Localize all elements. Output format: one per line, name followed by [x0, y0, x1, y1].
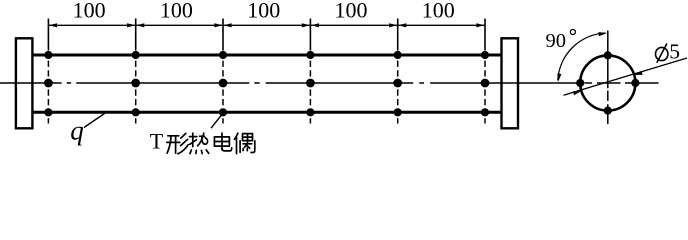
thermocouple dot top, station 1 — [44, 51, 52, 59]
svg-text:100: 100 — [73, 0, 106, 22]
thermocouple dot centre, station 1 — [44, 79, 53, 88]
svg-text:q: q — [70, 116, 84, 146]
phi5 arrowhead upper-right pointing at circle — [634, 71, 643, 75]
arrowhead left end of segment 4 — [311, 23, 319, 27]
station 5 dimension extension line — [397, 19, 399, 51]
thermocouple dot top, station 4 — [306, 51, 314, 59]
leader line from q label to tube wall — [84, 114, 105, 128]
station 1 dimension extension line — [47, 19, 49, 51]
station 2 dimension extension line — [135, 19, 137, 51]
tube top wall — [33, 54, 501, 57]
thermocouple dot centre, station 3 — [219, 79, 228, 88]
label char &#20598; — [234, 133, 254, 154]
thermocouple dot bottom, station 6 — [481, 108, 489, 116]
svg-text:90: 90 — [546, 30, 567, 52]
station 1 vertical dashed line — [47, 51, 49, 124]
tube cross-section circle — [580, 55, 635, 110]
arrowhead right end of segment 5 — [476, 23, 484, 27]
thermocouple dot centre, station 5 — [393, 79, 402, 88]
90 degree dimension arc — [558, 33, 606, 81]
station 3 dimension extension line — [222, 19, 224, 51]
arc arrowhead at vertical centerline — [598, 32, 606, 36]
svg-text:100: 100 — [422, 0, 455, 22]
arrowhead right end of segment 3 — [302, 23, 310, 27]
dimension line segment 5 (100) — [398, 24, 485, 26]
leader line from thermocouple label to bottom dot — [211, 114, 223, 128]
thermocouple dot bottom, station 3 — [219, 108, 227, 116]
thermocouple dot bottom, station 5 — [394, 108, 402, 116]
station 5 vertical dashed line — [397, 51, 399, 124]
left flange — [16, 38, 33, 128]
label char &#28909; — [190, 133, 209, 154]
label char &#24418; — [167, 133, 189, 153]
thermocouple dot centre, station 6 — [481, 79, 490, 88]
thermocouple dot centre, station 2 — [131, 79, 140, 88]
label char &#30005; — [214, 133, 231, 151]
arrowhead left end of segment 5 — [398, 23, 406, 27]
arrowhead left end of segment 2 — [136, 23, 144, 27]
dimension line segment 4 (100) — [310, 24, 397, 26]
tube bottom wall — [33, 111, 501, 114]
dimension line segment 2 (100) — [136, 24, 223, 26]
section thermocouple dot right — [631, 79, 639, 87]
label phi (diameter symbol) — [656, 47, 668, 60]
thermocouple dot top, station 3 — [219, 51, 227, 59]
right flange — [502, 38, 519, 128]
station 3 vertical dashed line — [222, 51, 224, 124]
thermocouple dot top, station 2 — [132, 51, 140, 59]
dimension line segment 1 (100) — [48, 24, 135, 26]
station 2 vertical dashed line — [135, 51, 137, 124]
section circle vertical centerline — [607, 31, 609, 125]
dimension line segment 3 (100) — [223, 24, 310, 26]
phi5 arrowhead lower-left pointing at circle — [573, 91, 582, 95]
svg-text:100: 100 — [335, 0, 368, 22]
arrowhead left end of segment 3 — [223, 23, 231, 27]
section thermocouple dot left — [576, 79, 584, 87]
arc arrowhead at horizontal centerline — [557, 73, 561, 81]
svg-text:T: T — [150, 129, 164, 154]
svg-text:100: 100 — [160, 0, 193, 22]
arrowhead right end of segment 4 — [389, 23, 397, 27]
station 6 vertical dashed line — [484, 51, 486, 124]
arrowhead right end of segment 1 — [127, 23, 135, 27]
thermocouple dot top, station 5 — [394, 51, 402, 59]
station 6 dimension extension line — [484, 19, 486, 51]
degree symbol of 90 — [570, 30, 575, 35]
section thermocouple dot top — [604, 51, 612, 59]
station 4 dimension extension line — [309, 19, 311, 51]
thermocouple dot bottom, station 1 — [44, 108, 52, 116]
phi5 dimension line through section — [564, 58, 688, 95]
svg-text:5: 5 — [669, 40, 680, 64]
svg-text:100: 100 — [247, 0, 280, 22]
centerline dashes inside and right of section circle — [585, 82, 659, 84]
section thermocouple dot bottom — [604, 107, 612, 115]
thermocouple dot bottom, station 4 — [306, 108, 314, 116]
station 4 vertical dashed line — [309, 51, 311, 124]
thermocouple dot top, station 6 — [481, 51, 489, 59]
horizontal centerline of tube (dash-dot, solid through flanges) — [0, 82, 578, 84]
arrowhead left end of segment 1 — [49, 23, 57, 27]
thermocouple dot centre, station 4 — [306, 79, 315, 88]
thermocouple dot bottom, station 2 — [132, 108, 140, 116]
arrowhead right end of segment 2 — [214, 23, 222, 27]
